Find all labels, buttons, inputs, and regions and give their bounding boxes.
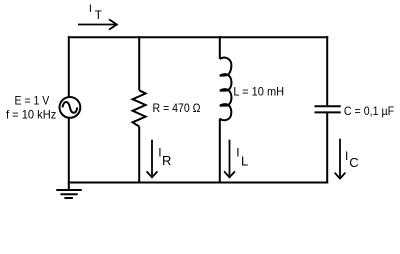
svg-text:E = 1 V: E = 1 V (15, 94, 50, 108)
svg-text:C = 0,1 µF: C = 0,1 µF (344, 104, 394, 118)
current arrow IT (top, pointing right) (78, 19, 117, 29)
capacitor C top plate (315, 105, 341, 107)
svg-text:L: L (241, 154, 248, 169)
wire: left branch lower (source bottom to bottom bus) (68, 118, 70, 184)
svg-text:R = 470 Ω: R = 470 Ω (153, 101, 201, 115)
wire: capacitor branch upper (326, 36, 328, 105)
wire: inductor branch lower (219, 120, 221, 184)
source E sine wave (62, 102, 77, 113)
current arrow IR (pointing down) (147, 140, 158, 178)
svg-text:I: I (345, 149, 348, 163)
resistor R zigzag (133, 90, 146, 126)
wire: capacitor branch lower (326, 113, 328, 183)
current arrow IL (pointing down) (224, 140, 235, 178)
inductor L coil (220, 58, 232, 121)
source E (AC source circle) (60, 97, 81, 118)
svg-text:I: I (89, 3, 92, 15)
svg-text:I: I (236, 146, 239, 160)
svg-text:L = 10 mH: L = 10 mH (233, 84, 284, 98)
capacitor C bottom plate (315, 111, 341, 113)
wire: resistor branch lower (138, 127, 140, 184)
wire: top bus from left branch to right branch (68, 36, 328, 38)
svg-text:f = 10 kHz: f = 10 kHz (6, 108, 56, 122)
wire: left branch upper (corner to source top) (68, 36, 70, 97)
wire: inductor branch upper (219, 36, 221, 59)
ground (56, 183, 82, 199)
wire: resistor branch upper (138, 36, 140, 90)
current arrow IC (pointing down) (335, 139, 346, 179)
svg-text:C: C (349, 155, 358, 170)
svg-text:T: T (95, 8, 103, 22)
wire: bottom bus from ground junction to right branch (69, 182, 328, 184)
svg-text:R: R (162, 153, 171, 168)
